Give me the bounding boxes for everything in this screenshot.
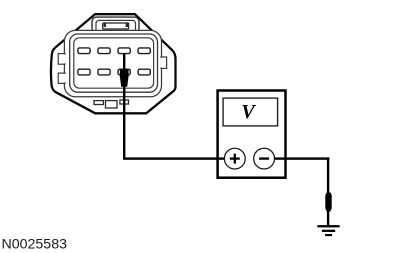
svg-text:V: V [241, 101, 256, 123]
svg-text:N0025583: N0025583 [2, 236, 68, 252]
